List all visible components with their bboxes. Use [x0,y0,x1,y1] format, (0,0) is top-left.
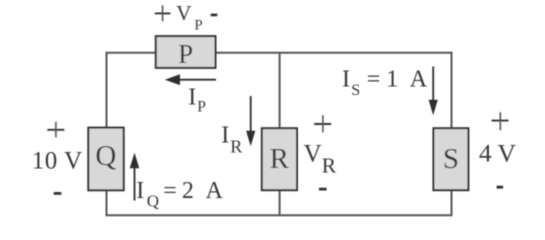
element R box [262,128,297,190]
wire left upper [106,52,108,128]
svg-text:I: I [136,178,144,204]
wire right lower [451,190,453,216]
element Q box [88,128,123,191]
wire middle upper [279,53,281,129]
svg-text:Q: Q [95,140,116,172]
label plus of V_P [155,12,171,14]
wire top-left segment [107,52,157,54]
svg-text:I: I [188,85,196,111]
svg-text:S: S [443,143,459,175]
svg-text:10 V: 10 V [32,147,83,174]
svg-text:I: I [342,67,350,93]
label minus of V_P [211,14,218,17]
element S box [433,128,468,190]
label plus of 4 V [492,120,509,122]
svg-text:A: A [410,67,428,93]
svg-text:P: P [178,39,193,69]
label minus of V_R [319,188,327,191]
svg-text:V: V [304,141,322,168]
svg-text:R: R [230,136,242,156]
svg-text:V: V [176,1,191,25]
svg-text:A: A [206,178,224,204]
wire right upper [451,52,453,129]
svg-text:P: P [195,17,203,33]
wire top-right segment [216,52,453,54]
wire middle lower [279,190,281,215]
svg-text:S: S [351,82,360,99]
svg-text:Q: Q [147,192,159,211]
wire bottom [106,214,453,216]
label plus of V_R [314,123,331,125]
current arrow I_P [170,79,216,81]
current arrow I_R [250,96,252,132]
svg-text:R: R [270,143,290,175]
element P box [156,36,216,68]
label minus of 10 V [54,192,62,195]
current arrow I_Q [134,158,136,201]
svg-text:=: = [163,178,177,204]
svg-text:2: 2 [182,178,194,204]
svg-text:I: I [221,123,229,149]
svg-text:=: = [367,67,381,93]
label minus of 4 V [497,186,504,189]
svg-text:4 V: 4 V [479,139,517,168]
wire left lower [106,190,108,216]
svg-text:P: P [197,98,206,115]
svg-text:1: 1 [386,67,398,93]
label plus of 10 V [47,129,64,131]
current arrow I_S [432,67,434,102]
svg-text:R: R [322,154,337,178]
